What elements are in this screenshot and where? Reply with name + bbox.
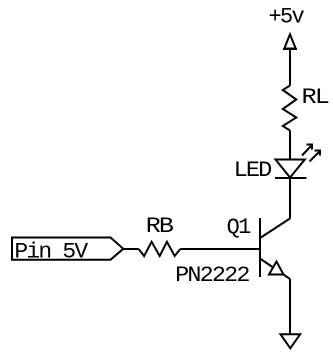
svg-text:+5v: +5v [269, 5, 305, 30]
wire: RB to base [180, 248, 260, 250]
port flag Pin 5V [12, 238, 123, 260]
LED light arrow 2 [310, 151, 321, 162]
ground [281, 334, 301, 348]
transistor Q1 emitter arrow [269, 262, 284, 275]
resistor RB [139, 242, 181, 256]
LED [275, 160, 306, 179]
wire: LED cathode to collector [289, 178, 291, 219]
power arrow symbol [283, 34, 297, 49]
wire: power arrow to RL [289, 49, 291, 86]
wire: emitter to ground [289, 279, 291, 334]
svg-text:RB: RB [146, 214, 174, 239]
transistor Q1 base bar [259, 218, 261, 277]
transistor Q1 collector lead [260, 219, 290, 239]
svg-text:Pin 5V: Pin 5V [14, 240, 89, 265]
resistor RL [283, 86, 297, 131]
svg-text:PN2222: PN2222 [175, 263, 249, 288]
wire: flag to RB [123, 248, 138, 250]
wire: RL to LED anode [289, 131, 291, 160]
svg-text:LED: LED [234, 158, 272, 183]
svg-text:Q1: Q1 [227, 215, 252, 240]
transistor Q1 emitter lead [260, 259, 290, 280]
LED light arrow 1 [302, 145, 312, 156]
svg-text:RL: RL [302, 85, 329, 110]
